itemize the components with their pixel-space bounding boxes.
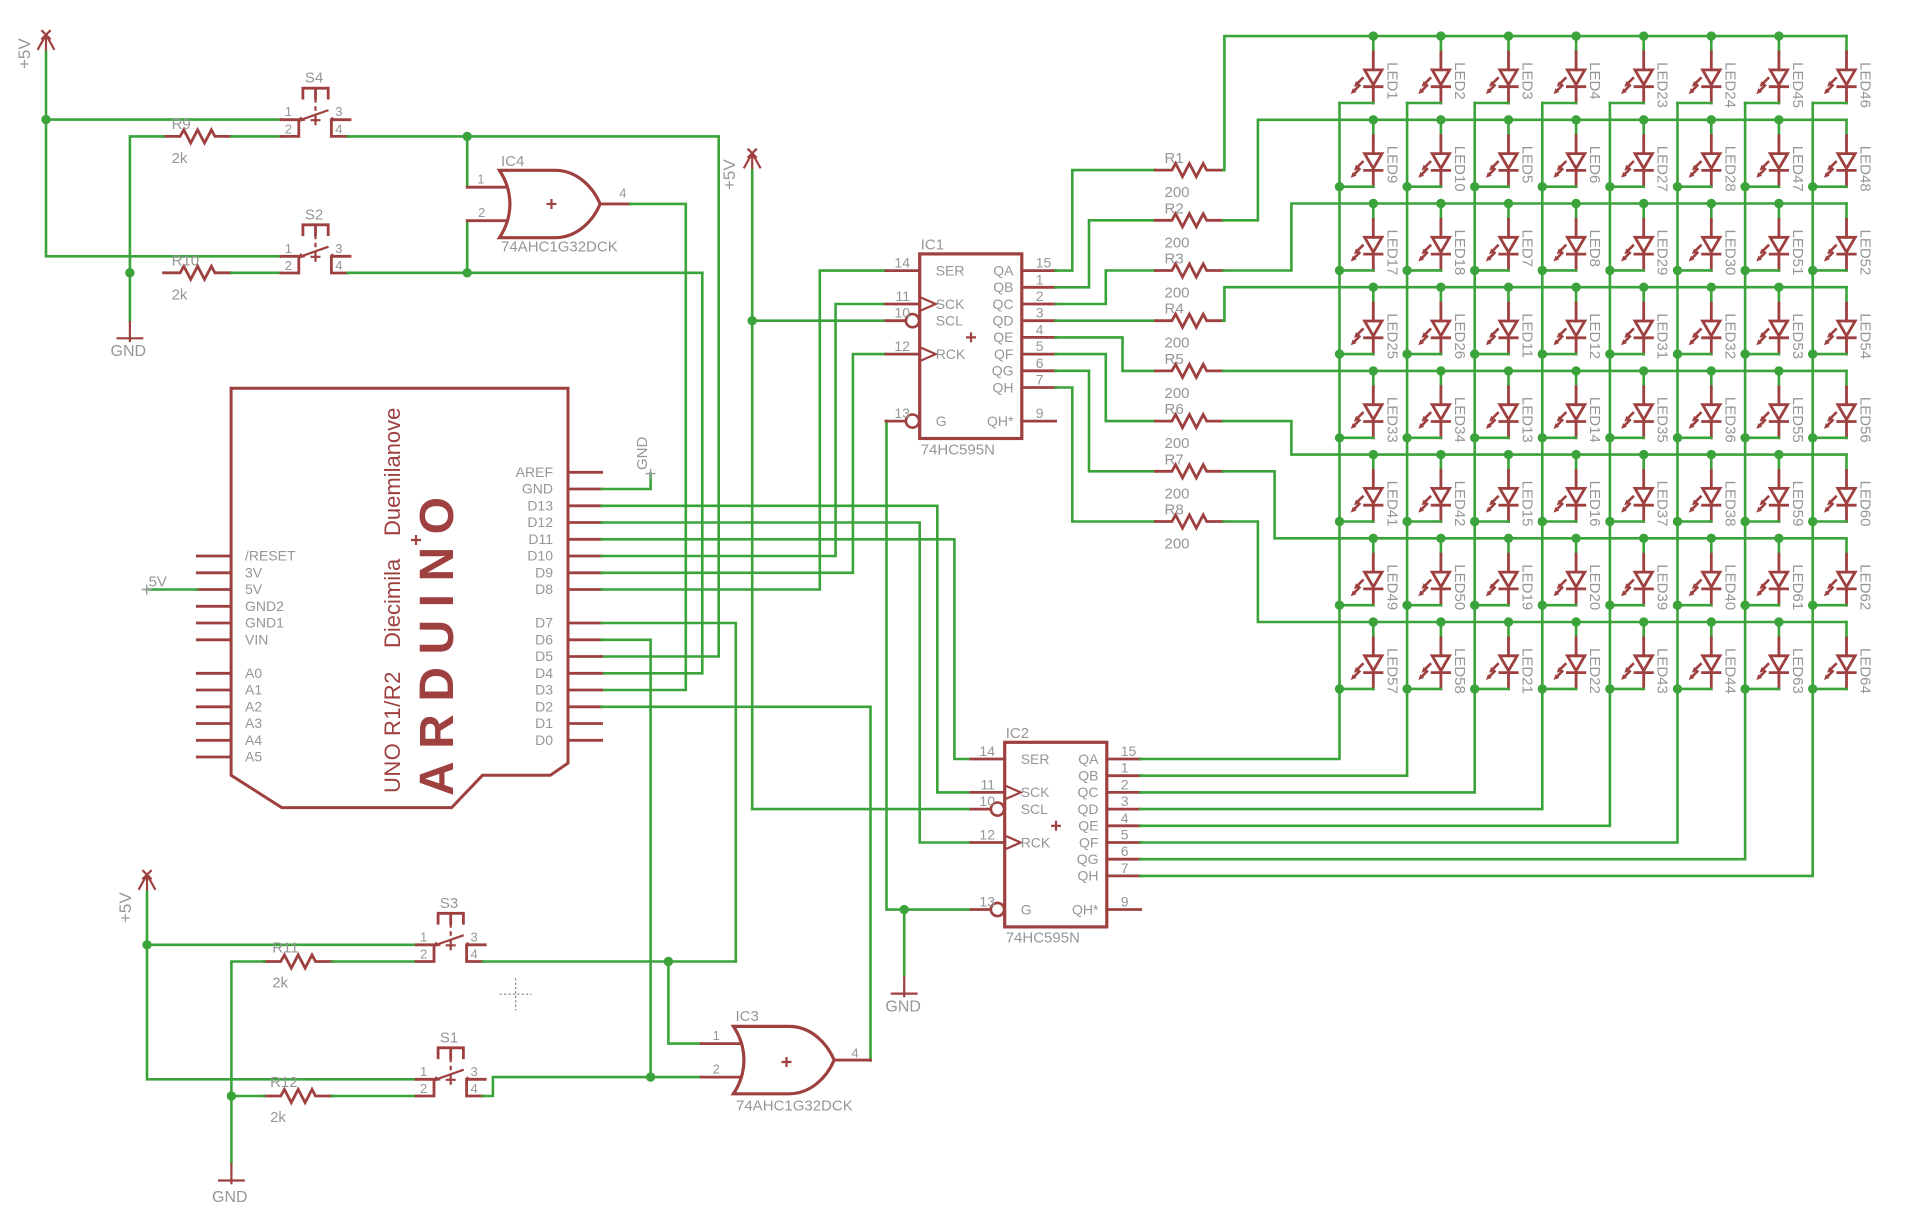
svg-text:3: 3	[335, 104, 342, 119]
LED LED38	[1678, 455, 1739, 527]
svg-text:+5V: +5V	[15, 38, 34, 69]
svg-text:LED16: LED16	[1586, 481, 1603, 527]
junction anode	[1707, 283, 1716, 292]
wire to IC2 SCL pin 10	[752, 808, 968, 811]
junction anode	[1504, 283, 1513, 292]
wire column 4 cathode bus to IC2 QD	[1140, 103, 1542, 809]
wire +5V to IC1 SCL pin 10	[752, 319, 886, 322]
svg-text:2: 2	[420, 1081, 427, 1096]
LED LED55	[1745, 371, 1806, 443]
ground symbol GND (top left)	[111, 321, 147, 360]
svg-text:A4: A4	[245, 732, 262, 748]
junction cathode	[1740, 182, 1749, 191]
svg-text:1: 1	[285, 241, 292, 256]
svg-text:Duemilanove: Duemilanove	[380, 408, 405, 536]
svg-text:74AHC1G32DCK: 74AHC1G32DCK	[501, 239, 618, 256]
svg-text:A5: A5	[245, 749, 262, 765]
svg-text:2: 2	[713, 1061, 720, 1076]
svg-text:QB: QB	[1078, 768, 1098, 784]
junction anode	[1504, 115, 1513, 124]
svg-text:12: 12	[894, 338, 910, 354]
wire D6 down to IC3 pin2 line	[602, 640, 651, 1077]
svg-text:LED49: LED49	[1383, 564, 1400, 610]
svg-text:D2: D2	[535, 698, 553, 714]
resistor R2 (200)	[1155, 200, 1223, 251]
wire +5V to S4 pin 1	[46, 118, 281, 121]
wire D12 to IC2 RCK	[602, 523, 969, 843]
svg-text:ARDUINO: ARDUINO	[411, 485, 464, 797]
svg-text:SER: SER	[1021, 751, 1050, 767]
junction anode	[1504, 617, 1513, 626]
LED LED21	[1475, 622, 1536, 694]
svg-text:GND: GND	[885, 999, 921, 1016]
svg-text:A1: A1	[245, 682, 262, 698]
junction anode	[1774, 115, 1783, 124]
svg-text:LED17: LED17	[1383, 230, 1400, 276]
svg-text:UNO R1/R2: UNO R1/R2	[380, 671, 405, 793]
svg-text:3: 3	[335, 241, 342, 256]
junction anode	[1504, 450, 1513, 459]
wire branch IC4 pin2 down to S2 line	[466, 221, 469, 273]
svg-text:LED27: LED27	[1654, 146, 1671, 192]
resistor R10 (2k)	[164, 252, 232, 303]
LED LED63	[1745, 622, 1806, 694]
wire S1 pin4 to IC3 pin 2	[483, 1077, 701, 1096]
junction cathode	[1605, 182, 1614, 191]
svg-text:LED13: LED13	[1519, 397, 1536, 443]
LED LED18	[1407, 204, 1468, 276]
junction cathode	[1673, 433, 1682, 442]
svg-text:15: 15	[1121, 743, 1137, 759]
svg-text:LED38: LED38	[1721, 481, 1738, 527]
junction anode	[1436, 366, 1445, 375]
svg-text:LED1: LED1	[1383, 62, 1400, 100]
junction anode	[1707, 617, 1716, 626]
LED LED11	[1475, 287, 1536, 358]
svg-text:11: 11	[895, 288, 910, 304]
wire IC1 QF to R6	[1056, 354, 1156, 421]
svg-text:SER: SER	[936, 262, 965, 278]
resistor R6 (200)	[1155, 401, 1223, 452]
svg-text:D13: D13	[527, 497, 553, 513]
LED LED40	[1678, 538, 1739, 610]
svg-text:12: 12	[979, 827, 995, 843]
svg-text:LED62: LED62	[1857, 564, 1874, 610]
wire D2 to IC3 output	[602, 707, 871, 1061]
junction anode	[1774, 283, 1783, 292]
wire down to GND	[230, 1096, 233, 1163]
junction cathode	[1605, 684, 1614, 693]
junction cathode	[1673, 517, 1682, 526]
junction cathode	[1470, 433, 1479, 442]
svg-text:LED22: LED22	[1586, 648, 1603, 694]
svg-text:R3: R3	[1165, 251, 1184, 268]
svg-text:QE: QE	[1078, 818, 1098, 834]
wire IC1 G to IC2 G	[886, 421, 969, 909]
junction anode	[1774, 199, 1783, 208]
svg-text:R6: R6	[1165, 401, 1184, 418]
svg-text:LED54: LED54	[1857, 313, 1874, 359]
svg-text:SCL: SCL	[1021, 801, 1048, 817]
junction G line / GND	[900, 905, 909, 914]
svg-text:LED52: LED52	[1857, 230, 1874, 276]
svg-text:LED58: LED58	[1451, 648, 1468, 694]
LED LED6	[1542, 120, 1603, 187]
junction cathode	[1605, 349, 1614, 358]
svg-text:LED40: LED40	[1721, 564, 1738, 610]
LED LED17	[1340, 204, 1401, 276]
junction anode	[1774, 534, 1783, 543]
junction cathode	[1808, 433, 1817, 442]
svg-text:6: 6	[1121, 843, 1129, 859]
junction cathode	[1808, 684, 1817, 693]
wire IC1 QH to R8	[1056, 388, 1156, 522]
svg-text:4: 4	[619, 186, 626, 201]
wire column 8 cathode bus to IC2 QH	[1140, 103, 1812, 876]
resistor R5 (200)	[1155, 351, 1223, 402]
junction cathode	[1470, 349, 1479, 358]
junction anode	[1639, 115, 1648, 124]
LED LED34	[1407, 371, 1468, 443]
svg-text:4: 4	[1036, 321, 1044, 337]
svg-text:1: 1	[1121, 760, 1129, 776]
junction anode	[1639, 31, 1648, 40]
svg-text:QA: QA	[993, 262, 1014, 278]
LED LED51	[1745, 204, 1806, 276]
wire column 1 cathode bus to IC2 QA	[1140, 103, 1339, 759]
svg-text:2k: 2k	[172, 286, 188, 303]
svg-text:D4: D4	[535, 665, 553, 681]
svg-text:1: 1	[420, 929, 427, 944]
svg-text:QD: QD	[1078, 801, 1099, 817]
junction cathode	[1808, 601, 1817, 610]
svg-text:Diecimila: Diecimila	[380, 558, 405, 648]
or-gate IC4 74AHC1G32DCK	[467, 153, 630, 255]
junction anode	[1571, 31, 1580, 40]
svg-text:LED19: LED19	[1519, 564, 1536, 610]
svg-text:LED30: LED30	[1721, 230, 1738, 276]
svg-text:SCK: SCK	[1021, 784, 1050, 800]
svg-text:LED31: LED31	[1654, 313, 1671, 359]
svg-text:LED20: LED20	[1586, 564, 1603, 610]
svg-text:74AHC1G32DCK: 74AHC1G32DCK	[736, 1098, 853, 1115]
junction cathode	[1470, 182, 1479, 191]
svg-text:2: 2	[1121, 776, 1129, 792]
svg-text:LED41: LED41	[1383, 481, 1400, 527]
junction anode	[1436, 199, 1445, 208]
junction anode	[1707, 366, 1716, 375]
svg-text:4: 4	[851, 1046, 858, 1061]
svg-text:GND: GND	[212, 1189, 248, 1206]
svg-text:2k: 2k	[272, 975, 288, 992]
resistor R11 (2k)	[264, 940, 332, 992]
LED LED45	[1745, 36, 1806, 108]
svg-text:1: 1	[1036, 271, 1044, 287]
svg-text:LED24: LED24	[1721, 62, 1738, 108]
junction cathode	[1335, 349, 1344, 358]
svg-text:200: 200	[1165, 184, 1190, 201]
svg-text:10: 10	[979, 793, 995, 809]
svg-text:LED9: LED9	[1383, 146, 1400, 184]
wire R9 left to vertical	[130, 136, 164, 272]
svg-text:R1: R1	[1165, 150, 1184, 167]
+5V supply flag (top left)	[15, 30, 54, 69]
svg-text:VIN: VIN	[245, 631, 268, 647]
junction cathode	[1538, 684, 1547, 693]
svg-text:LED53: LED53	[1789, 313, 1806, 359]
LED LED56	[1813, 371, 1874, 443]
resistor R1 (200)	[1155, 150, 1223, 201]
svg-text:QC: QC	[993, 296, 1014, 312]
junction R10 line / GND branch	[125, 268, 134, 277]
svg-text:LED6: LED6	[1586, 146, 1603, 184]
svg-text:R5: R5	[1165, 351, 1184, 368]
svg-text:QD: QD	[993, 313, 1014, 329]
svg-text:D1: D1	[535, 715, 553, 731]
LED LED59	[1745, 455, 1806, 527]
junction anode	[1639, 450, 1648, 459]
wire S3 pin4 output east	[483, 960, 736, 963]
svg-text:LED5: LED5	[1519, 146, 1536, 184]
wire GND branch from G line	[903, 910, 906, 977]
LED LED16	[1542, 455, 1603, 527]
svg-text:3: 3	[471, 929, 478, 944]
LED LED44	[1678, 622, 1739, 694]
wire D7 down to S3 output line	[602, 623, 736, 962]
junction cathode	[1605, 433, 1614, 442]
shift register IC2 74HC595N	[971, 725, 1141, 947]
junction R12 / GND branch	[227, 1091, 236, 1100]
junction cathode	[1470, 266, 1479, 275]
svg-text:R2: R2	[1165, 200, 1184, 217]
svg-text:LED47: LED47	[1789, 146, 1806, 192]
junction anode	[1436, 617, 1445, 626]
svg-text:LED56: LED56	[1857, 397, 1874, 443]
wire R11 left to vertical	[231, 962, 264, 1097]
LED LED22	[1542, 622, 1603, 694]
junction anode	[1436, 115, 1445, 124]
+5V supply flag (bottom left)	[116, 870, 155, 923]
wire row 3 anode bus	[1223, 204, 1846, 271]
svg-text:QG: QG	[1077, 851, 1099, 867]
svg-text:QH: QH	[1078, 868, 1099, 884]
junction anode	[1707, 115, 1716, 124]
LED LED32	[1678, 287, 1739, 359]
svg-text:4: 4	[335, 258, 342, 273]
svg-text:LED57: LED57	[1383, 648, 1400, 694]
wire column 5 cathode bus to IC2 QE	[1140, 103, 1610, 826]
svg-text:LED37: LED37	[1654, 481, 1671, 527]
resistor R4 (200)	[1155, 301, 1223, 352]
junction anode	[1504, 366, 1513, 375]
svg-text:7: 7	[1036, 372, 1044, 388]
junction cathode	[1335, 266, 1344, 275]
svg-text:11: 11	[980, 776, 995, 792]
svg-text:LED33: LED33	[1383, 397, 1400, 443]
LED LED8	[1542, 204, 1603, 271]
junction anode	[1436, 534, 1445, 543]
LED LED53	[1745, 287, 1806, 359]
svg-text:200: 200	[1165, 385, 1190, 402]
wire row 5 anode bus	[1223, 370, 1846, 373]
junction cathode	[1673, 684, 1682, 693]
svg-text:LED3: LED3	[1519, 62, 1536, 100]
LED LED28	[1678, 120, 1739, 192]
svg-text:SCK: SCK	[936, 296, 965, 312]
junction cathode	[1740, 517, 1749, 526]
svg-text:IC3: IC3	[736, 1008, 759, 1025]
svg-text:D7: D7	[535, 615, 553, 631]
LED LED61	[1745, 538, 1806, 610]
ground symbol GND (bottom left)	[212, 1163, 248, 1206]
svg-text:D12: D12	[527, 514, 553, 530]
wire row 4 anode bus	[1223, 287, 1846, 321]
junction cathode	[1808, 266, 1817, 275]
LED LED3	[1475, 36, 1536, 103]
junction anode	[1369, 31, 1378, 40]
junction cathode	[1402, 349, 1411, 358]
svg-text:D0: D0	[535, 732, 553, 748]
svg-text:200: 200	[1165, 435, 1190, 452]
svg-text:5: 5	[1121, 827, 1129, 843]
LED LED54	[1813, 287, 1874, 359]
junction cathode	[1402, 601, 1411, 610]
svg-text:LED4: LED4	[1586, 62, 1603, 100]
svg-text:A2: A2	[245, 698, 262, 714]
svg-text:5: 5	[1036, 338, 1044, 354]
junction anode	[1369, 534, 1378, 543]
svg-text:200: 200	[1165, 234, 1190, 251]
junction anode	[1774, 617, 1783, 626]
LED LED13	[1475, 371, 1536, 443]
resistor R12 (2k)	[264, 1074, 332, 1126]
svg-text:D8: D8	[535, 581, 553, 597]
wire R10 to S2 pin 2	[231, 271, 281, 274]
svg-text:RCK: RCK	[936, 346, 966, 362]
LED LED62	[1813, 538, 1874, 610]
svg-text:LED29: LED29	[1654, 230, 1671, 276]
junction cathode	[1402, 517, 1411, 526]
svg-text:S3: S3	[440, 895, 458, 912]
wire row 2 anode bus	[1223, 120, 1846, 221]
junction cathode	[1402, 684, 1411, 693]
svg-text:1: 1	[713, 1028, 720, 1043]
junction cathode	[1673, 182, 1682, 191]
svg-text:2: 2	[420, 946, 427, 961]
LED LED10	[1407, 120, 1468, 192]
svg-text:2k: 2k	[270, 1109, 286, 1126]
svg-text:LED28: LED28	[1721, 146, 1738, 192]
wire IC1 QA to R1	[1056, 170, 1156, 271]
wire D10 to IC1 SCK	[602, 304, 886, 556]
junction anode	[1504, 199, 1513, 208]
wire branch down to IC3 pin 1	[668, 962, 701, 1044]
junction cathode	[1740, 349, 1749, 358]
svg-text:14: 14	[979, 743, 995, 759]
LED LED37	[1610, 455, 1671, 527]
svg-text:LED21: LED21	[1519, 648, 1536, 694]
svg-text:D3: D3	[535, 682, 553, 698]
junction cathode	[1470, 601, 1479, 610]
svg-text:13: 13	[894, 405, 910, 421]
junction cathode	[1673, 349, 1682, 358]
svg-text:4: 4	[1121, 810, 1129, 826]
svg-text:G: G	[936, 413, 947, 429]
svg-text:LED25: LED25	[1383, 313, 1400, 359]
wire D11 to IC2 SER	[602, 539, 969, 759]
switch S3	[416, 895, 485, 962]
wire IC1 QB to R2	[1056, 220, 1156, 287]
svg-text:R8: R8	[1165, 502, 1184, 519]
switch S4	[281, 70, 350, 137]
svg-text:A3: A3	[245, 715, 262, 731]
svg-text:1: 1	[285, 104, 292, 119]
LED LED20	[1542, 538, 1603, 610]
junction anode	[1707, 534, 1716, 543]
svg-text:GND: GND	[634, 437, 651, 471]
svg-text:3: 3	[1121, 793, 1129, 809]
wire S4 line down to Arduino D5	[602, 136, 719, 656]
svg-text:D5: D5	[535, 648, 553, 664]
svg-text:LED2: LED2	[1451, 62, 1468, 100]
svg-text:D6: D6	[535, 631, 553, 647]
svg-text:6: 6	[1036, 355, 1044, 371]
junction cathode	[1402, 182, 1411, 191]
LED LED43	[1610, 622, 1671, 694]
svg-text:LED12: LED12	[1586, 313, 1603, 359]
svg-text:14: 14	[894, 255, 910, 271]
junction anode	[1639, 534, 1648, 543]
svg-text:200: 200	[1165, 536, 1190, 553]
svg-text:74HC595N: 74HC595N	[921, 441, 995, 458]
LED LED24	[1678, 36, 1739, 108]
svg-text:LED32: LED32	[1721, 313, 1738, 359]
svg-text:74HC595N: 74HC595N	[1006, 930, 1080, 947]
svg-text:5V: 5V	[149, 573, 167, 590]
svg-text:9: 9	[1036, 405, 1044, 421]
svg-text:LED60: LED60	[1857, 481, 1874, 527]
LED LED35	[1610, 371, 1671, 443]
+5V supply flag (middle)	[720, 149, 761, 190]
svg-text:QF: QF	[994, 346, 1013, 362]
svg-text:GND2: GND2	[245, 598, 284, 614]
svg-text:2: 2	[1036, 288, 1044, 304]
junction cathode	[1335, 601, 1344, 610]
wire D13 to IC2 SCK	[602, 506, 969, 793]
svg-text:+5V: +5V	[720, 159, 739, 190]
LED LED52	[1813, 204, 1874, 276]
LED LED42	[1407, 455, 1468, 527]
svg-text:LED15: LED15	[1519, 481, 1536, 527]
svg-text:LED34: LED34	[1451, 397, 1468, 443]
resistor R9 (2k)	[164, 116, 232, 167]
LED LED46	[1813, 36, 1874, 108]
junction anode	[1369, 199, 1378, 208]
svg-text:AREF: AREF	[516, 464, 553, 480]
svg-text:QA: QA	[1078, 751, 1099, 767]
wire row 1 anode bus	[1223, 36, 1846, 170]
svg-text:LED43: LED43	[1654, 648, 1671, 694]
junction S4 line / IC4 pin1	[463, 132, 472, 141]
svg-text:R10: R10	[172, 252, 200, 269]
junction cathode	[1740, 684, 1749, 693]
junction S3 line / IC3 pin1	[664, 957, 673, 966]
svg-text:7: 7	[1121, 860, 1129, 876]
LED LED14	[1542, 371, 1603, 443]
junction cathode	[1808, 349, 1817, 358]
wire D9 to IC1 RCK	[602, 354, 886, 573]
wire IC1 QC to R3	[1056, 271, 1156, 305]
